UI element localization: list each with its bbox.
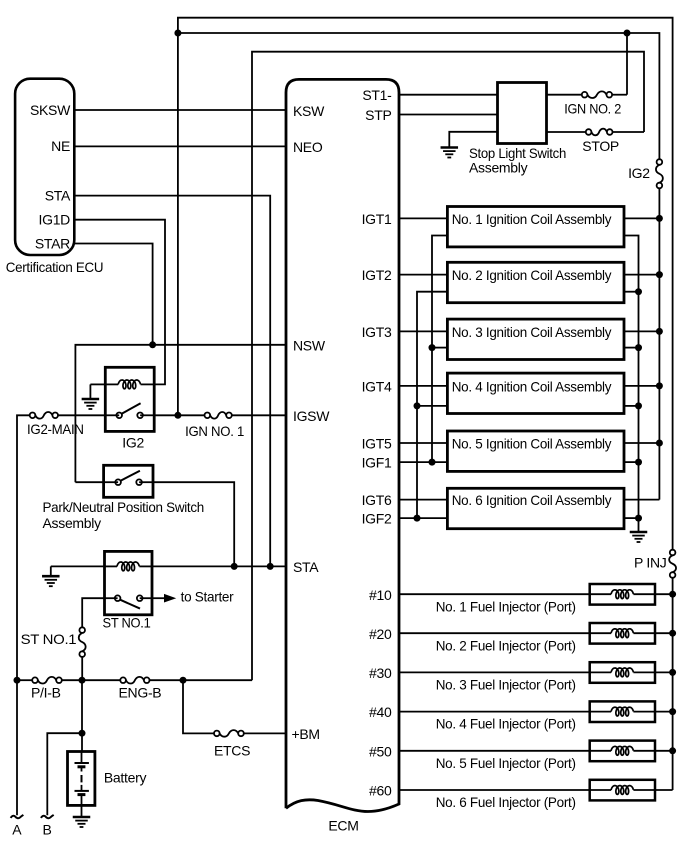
battery box: [68, 752, 95, 806]
svg-text:#50: #50: [369, 743, 392, 759]
fusible link ST NO.1: [79, 627, 86, 657]
pin KSW: [293, 103, 325, 119]
wire injector 2 to bus: [655, 632, 673, 634]
svg-text:ST NO.1: ST NO.1: [103, 615, 151, 631]
pin IGSW: [293, 408, 330, 424]
injector No. 6 box: [590, 780, 655, 801]
svg-text:No. 3 Ignition Coil Assembly: No. 3 Ignition Coil Assembly: [452, 324, 612, 340]
pin NSW: [293, 337, 326, 353]
junction IGN NO.2 riser on rail: [624, 30, 631, 37]
svg-text:ETCS: ETCS: [214, 742, 250, 758]
wire IG2-MAIN to IG2 relay: [58, 414, 105, 416]
svg-text:#10: #10: [369, 587, 392, 603]
svg-text:STOP: STOP: [582, 138, 619, 154]
fusible link IG2 label: [628, 165, 650, 181]
svg-text:IG2: IG2: [122, 435, 144, 451]
relay IG2 coil: [105, 380, 154, 389]
battery cell dash: [81, 775, 83, 782]
junction A-riser P/I-B: [14, 677, 21, 684]
wire IGN NO.2 riser: [626, 33, 628, 95]
No. 5 Ignition Coil Assembly box: [447, 431, 624, 471]
pin STP: [365, 107, 391, 123]
junction B branch on battery riser: [79, 730, 86, 737]
junction coil3 power: [656, 328, 663, 335]
No. 4 Fuel Injector (Port) label: [436, 716, 576, 732]
battery B2 plates: [75, 785, 89, 806]
wire #30 to injector: [399, 671, 590, 673]
Park/Neutral Position Switch box: [104, 465, 153, 497]
relay ST NO.1 coil: [105, 562, 153, 571]
injector No. 6 coil: [590, 786, 655, 795]
svg-text:No. 5 Ignition Coil Assembly: No. 5 Ignition Coil Assembly: [452, 436, 612, 452]
pin IGF2: [362, 511, 392, 527]
relay IG2 switch contacts: [105, 413, 154, 419]
junction injector 4 bus: [669, 708, 676, 715]
wire ETCS riser and +BM wire: [183, 680, 214, 733]
svg-text:to Starter: to Starter: [181, 589, 234, 605]
injector No. 5 box: [590, 741, 655, 762]
wire switch to IGN NO.2 fuse: [547, 94, 582, 96]
junction coil4 power: [656, 382, 663, 389]
park/neutral switch blade: [120, 471, 140, 481]
No. 3 Ignition Coil Assembly label: [452, 324, 612, 340]
wire STA (relay coil to ECM): [152, 565, 286, 567]
No. 1 Fuel Injector (Port) label: [436, 598, 576, 614]
junction top rail at x=178: [174, 30, 181, 37]
junction coil4 feedback: [414, 402, 421, 409]
injector No. 4 coil: [590, 707, 655, 716]
ground ST NO.1 coil: [42, 566, 60, 586]
ECM label: [328, 817, 358, 833]
wire P INJ to injector bus: [672, 578, 674, 790]
No. 2 Fuel Injector (Port) label: [436, 637, 576, 653]
fuse IGN NO. 2: [582, 91, 612, 98]
No. 2 Ignition Coil Assembly label: [452, 267, 612, 283]
junction IGF2 bus: [414, 515, 421, 522]
junction ETCS riser: [180, 677, 187, 684]
injector No. 5 coil: [590, 746, 655, 755]
wire coil5 ground stub: [624, 461, 639, 463]
wire coil3 feedback: [432, 347, 447, 349]
Certification ECU outline: [15, 79, 74, 255]
svg-text:Park/Neutral Position Switch: Park/Neutral Position Switch: [43, 499, 205, 515]
junction coil1 power: [656, 215, 663, 222]
wire top bus (KSW/+B rail to far right): [178, 18, 673, 550]
fuse STOP label: [582, 138, 619, 154]
relay IG2 box: [105, 367, 154, 431]
svg-text:No. 2 Fuel Injector (Port): No. 2 Fuel Injector (Port): [436, 637, 576, 653]
injector No. 4 box: [590, 701, 655, 722]
svg-text:KSW: KSW: [293, 103, 325, 119]
pin #20: [369, 626, 392, 642]
wire #10 to injector: [399, 593, 590, 595]
fusible link IG2: [656, 159, 663, 188]
injector No. 2 box: [590, 623, 655, 644]
svg-text:Assembly: Assembly: [469, 160, 528, 176]
svg-text:STP: STP: [365, 107, 391, 123]
svg-text:IGF2: IGF2: [362, 511, 392, 527]
junction battery riser on ENG-B wire: [79, 677, 86, 684]
wire NSW: [75, 345, 286, 482]
wire #50 to injector: [399, 750, 590, 752]
wire injector 3 to bus: [655, 671, 673, 673]
svg-text:NE: NE: [51, 138, 70, 154]
wire #60 to injector: [399, 789, 590, 791]
junction coil3 feedback: [429, 344, 436, 351]
Stop Light Switch Assembly box: [498, 83, 547, 144]
svg-text:IGT6: IGT6: [362, 492, 392, 508]
injector No. 3 box: [590, 662, 655, 683]
pin IGT1: [362, 211, 392, 227]
svg-text:IGSW: IGSW: [293, 408, 330, 424]
wire STAR down to NSW: [74, 244, 152, 345]
pin IGT6: [362, 492, 392, 508]
junction coil5 ground: [635, 459, 642, 466]
junction coil6 ground: [635, 515, 642, 522]
pin STAR: [35, 236, 70, 252]
pin STA (ECM): [293, 559, 319, 575]
wire third rail (STA rail) to STOP fuse: [252, 52, 644, 681]
wire coil4 ground stub: [624, 405, 639, 407]
wire IGT1: [399, 217, 447, 219]
relay ST NO.1 coil ground wire: [51, 565, 105, 567]
svg-text:No. 1 Fuel Injector (Port): No. 1 Fuel Injector (Port): [436, 598, 576, 614]
wire IGT6: [399, 499, 447, 501]
junction injector 3 bus: [669, 669, 676, 676]
No. 1 Ignition Coil Assembly label: [452, 211, 612, 227]
No. 6 Ignition Coil Assembly box: [447, 488, 624, 528]
wire injector 5 to bus: [655, 750, 673, 752]
fusible link P INJ label: [634, 555, 666, 571]
wire IGT4: [399, 385, 447, 387]
wire coil6 ground stub: [624, 517, 639, 519]
svg-text:IGT3: IGT3: [362, 324, 392, 340]
svg-text:B: B: [43, 821, 52, 837]
wire stop light switch ground lead: [449, 132, 497, 148]
wire IG2 link to coil bus: [658, 188, 660, 499]
injector No. 1 coil: [590, 590, 655, 599]
svg-text:IGF1: IGF1: [362, 455, 392, 471]
fuse IGN NO. 1: [205, 412, 232, 419]
to Starter label: [181, 589, 234, 605]
svg-text:A: A: [12, 821, 22, 837]
svg-text:ST1-: ST1-: [362, 87, 392, 103]
svg-text:IGT5: IGT5: [362, 436, 392, 452]
wire IGN NO.1 to IGSW pin: [232, 414, 286, 416]
fuse ENG-B: [120, 677, 149, 684]
wire injector 6 to bus: [655, 789, 673, 791]
No. 3 Fuel Injector (Port) label: [436, 677, 576, 693]
pin STA (cert): [45, 188, 71, 204]
pin IGT2: [362, 267, 392, 283]
wire coil1 ground stub: [624, 236, 639, 532]
No. 5 Ignition Coil Assembly label: [452, 436, 612, 452]
svg-text:No. 6 Ignition Coil Assembly: No. 6 Ignition Coil Assembly: [452, 492, 612, 508]
pin IGT3: [362, 324, 392, 340]
wire ST1-: [399, 94, 498, 96]
svg-text:IGT2: IGT2: [362, 267, 392, 283]
svg-text:+BM: +BM: [292, 726, 320, 742]
fuse IG2-MAIN label: [27, 421, 84, 437]
svg-text:STA: STA: [293, 559, 319, 575]
wire coil2 feedback: [417, 292, 447, 518]
junction STAR on NSW wire: [149, 341, 156, 348]
pin NEO: [293, 139, 323, 155]
wire ETCS to +BM pin: [244, 732, 286, 734]
relay ST NO.1 switch contacts: [105, 595, 153, 601]
fuse ETCS label: [214, 742, 250, 758]
Stop Light Switch label line2: [469, 160, 528, 176]
relay IG2 coil ground wire: [90, 383, 105, 385]
wire #20 to injector: [399, 632, 590, 634]
node B label: [43, 821, 52, 837]
junction cert STA on STA: [267, 563, 274, 570]
pin IGF1: [362, 455, 392, 471]
wire P/I-B to battery junction: [62, 679, 121, 681]
svg-text:No. 4 Fuel Injector (Port): No. 4 Fuel Injector (Port): [436, 716, 576, 732]
ground battery: [73, 805, 91, 827]
park/neutral switch contacts: [104, 479, 153, 485]
ground ignition coil bus: [630, 532, 648, 542]
pin IGT5: [362, 436, 392, 452]
wire IGSW left segment to IG2-MAIN: [17, 415, 30, 680]
svg-text:Certification ECU: Certification ECU: [6, 259, 104, 275]
Stop Light Switch label line1: [469, 145, 566, 161]
Certification ECU label: [6, 259, 104, 275]
Park/Neutral label line1: [43, 499, 205, 515]
wire coil3 power stub: [624, 330, 659, 332]
wire STP: [399, 114, 498, 116]
fuse ETCS: [214, 730, 244, 737]
wire #40 to injector: [399, 711, 590, 713]
connector B hook: [41, 815, 54, 818]
pin #10: [369, 587, 392, 603]
svg-text:SKSW: SKSW: [30, 102, 71, 118]
wire P/I-B left segment: [17, 679, 32, 681]
fuse ENG-B label: [119, 684, 162, 700]
svg-text:#60: #60: [369, 783, 392, 799]
svg-text:#40: #40: [369, 704, 392, 720]
junction coil5 power: [656, 440, 663, 447]
injector No. 1 box: [590, 584, 655, 605]
node A label: [12, 821, 22, 837]
svg-text:IG1D: IG1D: [39, 212, 71, 228]
wire STA(cert) down to STA(ECM): [74, 196, 270, 567]
No. 5 Fuel Injector (Port) label: [436, 755, 576, 771]
relay ST NO.1 label: [103, 615, 151, 631]
pin #50: [369, 743, 392, 759]
wire battery riser: [81, 680, 83, 751]
junction coil2 power: [656, 271, 663, 278]
wire IGF2: [399, 517, 447, 519]
arrow to Starter: [164, 594, 176, 603]
wire NSW riser into park/neutral switch: [75, 481, 103, 483]
svg-text:No. 5 Fuel Injector (Port): No. 5 Fuel Injector (Port): [436, 755, 576, 771]
relay IG2 switch blade: [121, 403, 140, 414]
pin #60: [369, 783, 392, 799]
injector No. 2 coil: [590, 629, 655, 638]
svg-text:#20: #20: [369, 626, 392, 642]
fusible link ST NO.1 label: [21, 631, 77, 647]
svg-text:No. 1 Ignition Coil Assembly: No. 1 Ignition Coil Assembly: [452, 211, 612, 227]
wire B connector branch: [47, 733, 82, 815]
junction injector 5 bus: [669, 747, 676, 754]
junction injector 1 bus: [669, 591, 676, 598]
junction injector 2 bus: [669, 630, 676, 637]
ground IG2 relay coil: [82, 384, 100, 409]
wire coil5 power stub: [624, 442, 659, 444]
wire STOP to riser: [613, 131, 645, 133]
wire switch to STOP fuse: [547, 131, 586, 133]
svg-text:NEO: NEO: [293, 139, 323, 155]
injector No. 3 coil: [590, 668, 655, 677]
junction top bus on IGSW wire: [174, 412, 181, 419]
wire NE-NEO: [74, 145, 286, 147]
junction coil3 ground: [635, 344, 642, 351]
pin +BM: [292, 726, 320, 742]
svg-text:ECM: ECM: [328, 817, 358, 833]
No. 2 Ignition Coil Assembly box: [447, 262, 624, 302]
wire IGT3: [399, 330, 447, 332]
fuse IG2-MAIN: [30, 412, 58, 419]
pin IG1D: [39, 212, 71, 228]
pin SKSW: [30, 102, 71, 118]
wire ENG-B to STA rail: [150, 679, 253, 681]
junction coil2 ground: [635, 288, 642, 295]
svg-text:ENG-B: ENG-B: [119, 684, 162, 700]
svg-text:ST NO.1: ST NO.1: [21, 631, 77, 647]
wire coil6 power stub: [624, 499, 659, 501]
fuse P/I-B: [32, 677, 62, 684]
wire second top rail to IG2 fusible link: [178, 33, 660, 159]
svg-text:STAR: STAR: [35, 236, 70, 252]
wire A riser lower: [16, 680, 18, 815]
svg-text:P INJ: P INJ: [634, 555, 666, 571]
wire coil4 power stub: [624, 385, 659, 387]
wire coil2 ground stub: [624, 291, 639, 293]
Park/Neutral label line2: [43, 515, 102, 531]
svg-text:IGT1: IGT1: [362, 211, 392, 227]
junction coil4 ground: [635, 402, 642, 409]
wire IGF1: [399, 461, 447, 463]
No. 1 Ignition Coil Assembly box: [447, 207, 624, 247]
svg-text:IG2: IG2: [628, 165, 650, 181]
wire ST NO.1 switch to fusible link: [82, 598, 104, 627]
pin IGT4: [362, 379, 392, 395]
wire coil1 feedback: [432, 236, 447, 463]
svg-text:Assembly: Assembly: [43, 515, 102, 531]
No. 6 Ignition Coil Assembly label: [452, 492, 612, 508]
wire park/neutral to STA wire: [153, 482, 234, 566]
connector A hook: [11, 815, 24, 818]
wire IG2 relay to IGN NO.1 fuse: [154, 414, 204, 416]
wire coil2 power stub: [624, 274, 659, 276]
svg-text:#30: #30: [369, 665, 392, 681]
No. 3 Ignition Coil Assembly box: [447, 319, 624, 359]
wire IGT2: [399, 274, 447, 276]
fusible link P INJ: [669, 550, 676, 578]
ground stop light switch: [441, 148, 459, 158]
fuse STOP: [586, 129, 613, 136]
svg-text:P/I-B: P/I-B: [31, 684, 61, 700]
svg-text:IGN NO. 2: IGN NO. 2: [564, 100, 621, 116]
junction IGF1 bus: [429, 459, 436, 466]
wire IGN NO.2 to riser: [612, 94, 627, 96]
svg-text:IG2-MAIN: IG2-MAIN: [27, 421, 84, 437]
relay IG2 label: [122, 435, 144, 451]
fuse IGN NO. 2 label: [564, 100, 621, 116]
battery B1 plates: [75, 752, 89, 772]
svg-text:No. 3 Fuel Injector (Port): No. 3 Fuel Injector (Port): [436, 677, 576, 693]
No. 4 Ignition Coil Assembly box: [447, 373, 624, 413]
wire IG1D to IG2 relay coil: [74, 220, 165, 385]
svg-text:IGT4: IGT4: [362, 379, 392, 395]
wire injector 4 to bus: [655, 711, 673, 713]
wire coil3 ground stub: [624, 347, 639, 349]
wire IGT5: [399, 442, 447, 444]
junction park/neutral on STA: [231, 563, 238, 570]
svg-text:Battery: Battery: [104, 770, 147, 786]
IC ECM outline (engine control module): [286, 79, 399, 811]
svg-text:IGN NO. 1: IGN NO. 1: [185, 423, 244, 439]
pin #40: [369, 704, 392, 720]
fuse IGN NO. 1 label: [185, 423, 244, 439]
No. 6 Fuel Injector (Port) label: [436, 794, 576, 810]
pin NE: [51, 138, 70, 154]
svg-text:STA: STA: [45, 188, 71, 204]
fuse P/I-B label: [31, 684, 61, 700]
wire injector 1 to bus: [655, 593, 673, 595]
pin ST1-: [362, 87, 392, 103]
svg-text:No. 6 Fuel Injector (Port): No. 6 Fuel Injector (Port): [436, 794, 576, 810]
wire coil1 power stub: [624, 217, 659, 219]
relay ST NO.1 box: [105, 551, 153, 614]
wire coil4 feedback: [417, 405, 447, 407]
svg-text:No. 2 Ignition Coil Assembly: No. 2 Ignition Coil Assembly: [452, 267, 612, 283]
No. 4 Ignition Coil Assembly label: [452, 378, 612, 394]
svg-text:NSW: NSW: [293, 337, 326, 353]
wire link to ENG-B junction: [81, 657, 83, 680]
pin #30: [369, 665, 392, 681]
battery label: [104, 770, 147, 786]
wire to starter arrow lead: [152, 597, 164, 599]
relay ST NO.1 switch blade: [120, 600, 140, 609]
svg-text:No. 4 Ignition Coil Assembly: No. 4 Ignition Coil Assembly: [452, 378, 612, 394]
wire SKSW-KSW: [74, 109, 286, 111]
